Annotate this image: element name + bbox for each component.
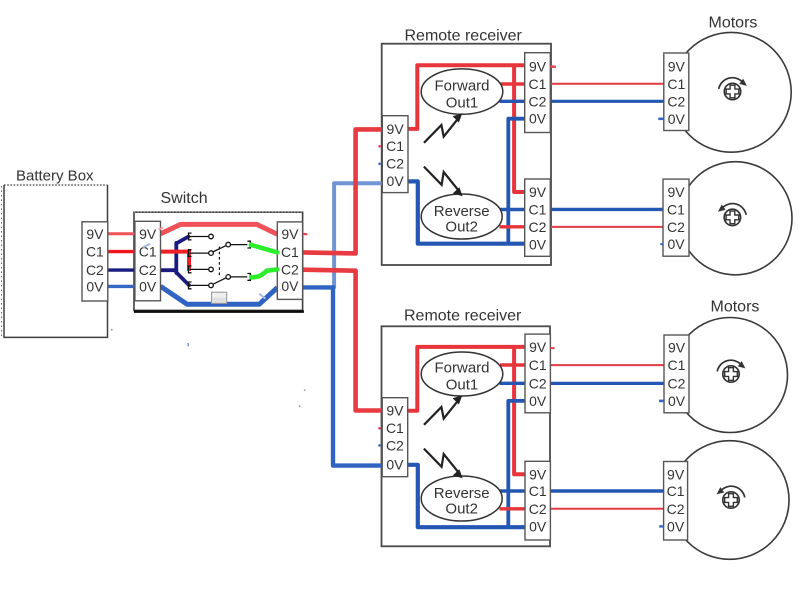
svg-text:9V: 9V xyxy=(667,467,685,483)
wire U1 9V branch to Out2 block (red) xyxy=(514,65,525,192)
wire U2 Out2 to C1 (blue) xyxy=(500,489,525,492)
svg-text:Out1: Out1 xyxy=(446,376,479,393)
svg-text:9V: 9V xyxy=(668,58,686,74)
svg-text:0V: 0V xyxy=(86,278,104,294)
switch pole output bottom xyxy=(231,274,251,281)
wire U1 Out1 to C1 (red) xyxy=(500,82,525,85)
terminal block battery xyxy=(82,222,108,301)
svg-text:C1: C1 xyxy=(386,138,404,154)
node stub U1 9V (red) xyxy=(550,65,556,68)
svg-text:C2: C2 xyxy=(667,501,685,517)
motor M3 body xyxy=(673,299,788,433)
svg-text:0V: 0V xyxy=(529,393,547,409)
wire U2 9V branch to Out2 block (red) xyxy=(514,347,525,474)
motor M4 body xyxy=(670,441,789,560)
switch pole lever top xyxy=(213,245,227,252)
svg-text:C1: C1 xyxy=(667,201,685,217)
node stub M3 0V (blue) xyxy=(659,400,664,403)
svg-text:C1: C1 xyxy=(529,76,547,92)
motor M3 rotation icon (clockwise) xyxy=(717,360,745,382)
terminal block U2 left xyxy=(382,398,408,477)
switch button xyxy=(212,292,227,303)
svg-text:C1: C1 xyxy=(667,483,685,499)
svg-text:C2: C2 xyxy=(86,262,104,278)
svg-text:C1: C1 xyxy=(281,244,299,260)
wire U2 C2 to motor M3 C2 (blue) xyxy=(550,382,664,385)
wire U1 Out1 to C2 (blue) xyxy=(500,100,525,103)
wire U2 Out2 to C2 (red) xyxy=(500,507,526,510)
svg-text:Out2: Out2 xyxy=(445,501,478,518)
svg-text:C2: C2 xyxy=(139,262,157,278)
wire battery C2 to switch (navy) xyxy=(108,268,135,271)
wire switch internal C1 feed (red) xyxy=(161,252,190,271)
terminal block switch left xyxy=(135,221,161,300)
svg-text:Forward: Forward xyxy=(434,77,489,94)
svg-text:9V: 9V xyxy=(281,226,299,242)
svg-text:Out2: Out2 xyxy=(445,219,478,236)
svg-text:9V: 9V xyxy=(668,340,686,356)
wire U1 C2b to motor M2 C2 (red) xyxy=(550,226,663,228)
svg-text:C1: C1 xyxy=(529,202,547,218)
terminal block motor M2 xyxy=(663,179,689,256)
wire U1 C2 to motor M1 C2 (blue) xyxy=(550,100,664,103)
arrow to Reverse Out2 (U1) xyxy=(424,167,463,197)
wire battery 0V to switch (blue) xyxy=(108,285,135,288)
wire U1 Out2 to C1 (blue) xyxy=(500,208,525,211)
wire switch 0V out (blue) xyxy=(303,285,335,289)
wire switch internal 9V top (light red) xyxy=(161,224,278,234)
artifact mark red in switch top left xyxy=(159,228,164,230)
svg-text:C2: C2 xyxy=(281,262,299,278)
wire U1 9V riser (red) xyxy=(408,65,525,129)
svg-text:C2: C2 xyxy=(667,219,685,235)
node stub M2 0V (blue) xyxy=(660,243,663,245)
svg-text:0V: 0V xyxy=(668,111,686,127)
artifact mark blue tick below switch xyxy=(187,343,189,346)
svg-text:Switch: Switch xyxy=(161,190,208,207)
svg-text:9V: 9V xyxy=(529,184,547,200)
artifact mark light blue in switch left xyxy=(143,244,150,247)
motor M2 rotation icon (counter-clockwise) xyxy=(718,204,746,226)
wire switch green to C2 xyxy=(251,269,277,277)
svg-text:0V: 0V xyxy=(387,173,405,189)
svg-text:Battery Box: Battery Box xyxy=(16,168,94,185)
wire U2 C2b to motor M4 C2 (red) xyxy=(550,508,663,510)
terminal block switch right xyxy=(277,222,302,300)
svg-text:C1: C1 xyxy=(529,357,547,373)
svg-text:Remote receiver: Remote receiver xyxy=(405,28,523,45)
wire U1 Out2 to C2 (red) xyxy=(500,225,525,228)
artifact mark light blue in switch bottom right xyxy=(259,294,265,299)
wire U2 Out1 to C1 (red) xyxy=(500,363,525,366)
arrow to Forward Out1 (U1) xyxy=(424,113,462,143)
artifact dot near battery box xyxy=(111,329,113,331)
wire switch internal C2 feed (navy) xyxy=(161,237,190,286)
svg-text:9V: 9V xyxy=(667,184,685,200)
wire switch internal 0V bottom (blue) xyxy=(161,286,278,304)
svg-text:9V: 9V xyxy=(86,226,104,242)
svg-text:Forward: Forward xyxy=(434,359,489,376)
wire U2 0V link top block (blue) xyxy=(508,401,525,527)
svg-text:9V: 9V xyxy=(139,226,157,242)
svg-text:0V: 0V xyxy=(139,278,157,294)
motor M4 rotation icon (counter-clockwise) xyxy=(717,486,745,508)
svg-text:0V: 0V xyxy=(529,236,547,252)
node stub M4 0V (blue) xyxy=(659,525,663,527)
motor M1 body xyxy=(671,15,791,153)
artifact dot below switch right 2 xyxy=(299,405,301,407)
switch S1 box xyxy=(134,190,304,312)
switch contact row 1 xyxy=(189,233,209,240)
svg-text:Remote receiver: Remote receiver xyxy=(404,308,522,325)
op-amp oval Forward Out1 (U2) xyxy=(421,352,503,396)
svg-text:Motors: Motors xyxy=(709,15,758,32)
switch mechanical link (dashed) xyxy=(218,247,220,276)
svg-text:C2: C2 xyxy=(529,93,547,109)
wire U2 Out1 to C2 (blue) xyxy=(500,382,526,385)
wire switch C1 to receiver U1 9V (red) xyxy=(303,129,383,253)
arrow to Reverse Out2 (U2) xyxy=(424,449,463,479)
svg-text:Out1: Out1 xyxy=(446,94,479,111)
wire U2 C1 to motor M3 C1 (red) xyxy=(550,364,664,366)
switch contact row 3 xyxy=(189,266,209,273)
wire switch 0V to receiver U1 0V (light blue) xyxy=(334,183,382,288)
svg-text:0V: 0V xyxy=(667,236,685,252)
svg-text:C1: C1 xyxy=(667,76,685,92)
svg-text:C2: C2 xyxy=(529,375,547,391)
battery box B1 xyxy=(2,168,108,338)
wire U2 0V bus (blue) xyxy=(408,465,525,527)
svg-text:C2: C2 xyxy=(668,375,686,391)
switch contact row 2 xyxy=(189,250,209,257)
terminal block motor M4 xyxy=(664,462,688,541)
wire U1 0V link top block (blue) xyxy=(508,119,524,244)
svg-text:0V: 0V xyxy=(386,456,404,472)
svg-text:C1: C1 xyxy=(386,420,404,436)
svg-text:9V: 9V xyxy=(529,59,547,75)
wire switch green to C1 xyxy=(251,245,277,252)
wire battery 9V to switch (red) xyxy=(108,232,135,235)
svg-text:9V: 9V xyxy=(386,403,404,419)
artifact dot below switch right xyxy=(304,389,306,391)
switch contact row 4 xyxy=(189,282,209,289)
node stub U2 9V (red) xyxy=(550,347,554,349)
svg-text:Motors: Motors xyxy=(711,299,760,316)
arrow to Forward Out1 (U2) xyxy=(424,395,462,425)
svg-text:0V: 0V xyxy=(529,518,547,534)
wire U1 C1b to motor M2 C1 (blue) xyxy=(550,208,663,211)
svg-text:C2: C2 xyxy=(529,501,547,517)
svg-text:C2: C2 xyxy=(529,219,547,235)
motor M1 rotation icon (clockwise) xyxy=(719,78,747,100)
op-amp oval Forward Out1 (U1) xyxy=(421,69,503,114)
svg-text:C1: C1 xyxy=(668,357,686,373)
svg-text:0V: 0V xyxy=(281,278,299,294)
terminal block U1 out2 xyxy=(525,179,551,256)
op-amp oval Reverse Out2 (U1) xyxy=(421,194,502,239)
terminal block U1 left xyxy=(382,116,408,193)
wire U2 C1b to motor M4 C1 (blue) xyxy=(550,489,663,492)
wire U2 9V riser (red) xyxy=(408,347,525,411)
node dot U1 C1 (red) xyxy=(378,145,381,148)
remote receiver U1 box xyxy=(382,28,551,266)
switch pole lever bottom xyxy=(213,278,227,285)
svg-text:C2: C2 xyxy=(386,156,404,172)
node dot U2 C1 (red) xyxy=(378,427,381,430)
svg-text:C2: C2 xyxy=(386,438,404,454)
remote receiver U2 box xyxy=(382,308,551,547)
switch pole output top xyxy=(231,241,251,248)
wire U1 C1 to motor M1 C1 (red) xyxy=(550,83,664,85)
terminal block U1 out1 xyxy=(525,53,551,133)
svg-text:0V: 0V xyxy=(668,393,686,409)
terminal block U2 out1 xyxy=(525,334,550,413)
svg-text:9V: 9V xyxy=(387,121,405,137)
svg-text:C1: C1 xyxy=(529,483,547,499)
op-amp oval Reverse Out2 (U2) xyxy=(421,476,502,521)
node dot U1 C2 (blue) xyxy=(378,163,381,166)
node stub switch 9V right (red) xyxy=(303,233,308,236)
wire battery C1 to switch (red) xyxy=(108,250,135,253)
svg-text:C1: C1 xyxy=(86,244,104,260)
wire switch 0V to receiver U2 0V (blue) xyxy=(333,287,382,465)
terminal block U2 out2 xyxy=(525,461,550,540)
node dot U2 C2 (blue) xyxy=(378,444,381,447)
svg-text:0V: 0V xyxy=(667,518,685,534)
wire switch C2 to receiver U2 9V (red) xyxy=(303,270,383,411)
terminal block motor M1 xyxy=(664,53,689,131)
svg-text:C2: C2 xyxy=(667,93,685,109)
node stub M1 0V (blue) xyxy=(658,118,664,121)
svg-text:0V: 0V xyxy=(529,111,547,127)
terminal block motor M3 xyxy=(664,335,689,413)
motor M2 body xyxy=(679,162,792,275)
svg-text:9V: 9V xyxy=(529,466,547,482)
wire U1 0V bus (blue) xyxy=(408,181,525,243)
svg-text:9V: 9V xyxy=(529,339,547,355)
